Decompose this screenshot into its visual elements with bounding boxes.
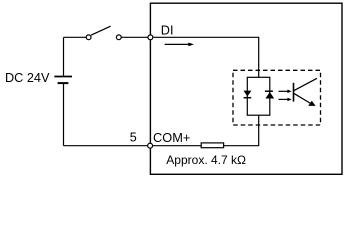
svg-text:DC 24V: DC 24V [5, 71, 50, 85]
svg-text:5: 5 [130, 130, 137, 144]
svg-text:Approx. 4.7 kΩ: Approx. 4.7 kΩ [166, 153, 246, 167]
svg-text:DI: DI [161, 23, 174, 37]
svg-text:COM+: COM+ [153, 130, 190, 145]
